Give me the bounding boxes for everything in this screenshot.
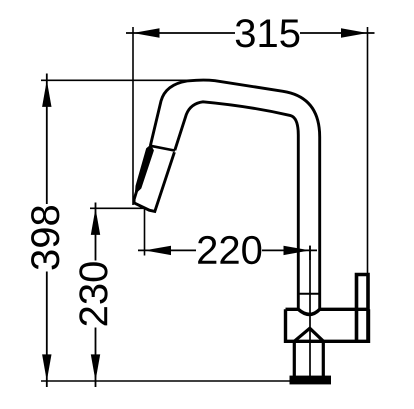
dim398 top extension line <box>41 79 197 81</box>
spout-head joint line <box>151 146 176 151</box>
shank <box>294 341 323 377</box>
dim220 centre tick <box>309 246 311 261</box>
dim220 text <box>198 236 261 264</box>
dim398 top arrow <box>42 80 51 107</box>
spray head tip face <box>134 203 149 210</box>
body outline <box>286 309 369 341</box>
dim315 line left part <box>126 32 235 34</box>
dim220 line left part <box>138 249 196 251</box>
dim230 line <box>95 203 97 388</box>
base plate <box>290 376 332 385</box>
tent / internal chevron <box>294 328 323 341</box>
dim315 line right part <box>300 32 375 34</box>
dim315 right extension line <box>367 27 369 309</box>
dim230 text <box>79 262 107 325</box>
dim315 right arrow <box>341 28 368 37</box>
dim398 text <box>31 206 59 269</box>
dim220 left extension line <box>144 208 146 255</box>
dim220 line right part <box>262 249 317 251</box>
spout outer curve <box>150 80 319 309</box>
dim315 left extension line <box>132 27 134 205</box>
faucet centre line <box>309 246 311 378</box>
dim230 top extension line <box>90 207 145 209</box>
dim230 bottom arrow <box>91 354 100 381</box>
dim315 text <box>236 19 300 47</box>
dim220 left arrow <box>145 246 172 255</box>
spout inner curve <box>175 102 298 309</box>
dim220 right arrow <box>284 246 311 255</box>
spray head body <box>134 148 174 212</box>
spray head grip accent <box>136 146 153 192</box>
bottom extension line <box>41 380 290 382</box>
dim230 top arrow <box>91 208 100 235</box>
dim398 bottom arrow <box>42 354 51 381</box>
dim398 line <box>46 74 48 388</box>
body top edge with V dip <box>286 309 369 314</box>
vertical tube joint line <box>298 293 319 295</box>
dim315 left arrow <box>133 28 160 37</box>
handle <box>357 275 369 342</box>
